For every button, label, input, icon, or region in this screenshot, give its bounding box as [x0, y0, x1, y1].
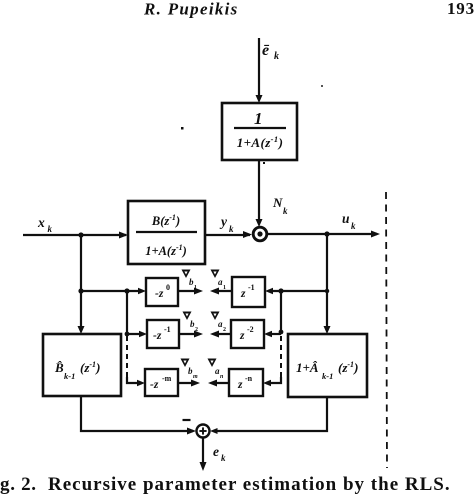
summing junction error: [197, 425, 210, 438]
svg-text:1+A(z-1): 1+A(z-1): [237, 134, 284, 150]
wire left chain dashed: [126, 336, 128, 377]
block z-2 row2: [231, 320, 264, 348]
wire left feedback down to B-hat block: [78, 235, 85, 334]
wire left chain solid: [126, 291, 128, 334]
wire right chain dashed: [280, 336, 282, 377]
svg-text:Recursive parameter estimation: Recursive parameter estimation by the RL…: [48, 474, 451, 495]
svg-text:k: k: [221, 453, 226, 463]
node grad b2 label: [183, 312, 199, 334]
wire noise filter to sum: [256, 160, 263, 227]
svg-text:193: 193: [447, 0, 474, 18]
svg-text:z: z: [239, 330, 245, 342]
wire error output e_k: [200, 438, 207, 471]
wire dashed page margin: [386, 192, 387, 468]
node x_k input label: [37, 215, 53, 234]
junction x_k branch: [78, 232, 83, 237]
block -z-m row3: [145, 369, 178, 396]
svg-text:2: 2: [223, 327, 226, 333]
block z-1 row1: [232, 277, 265, 307]
node grad a2 label: [211, 312, 227, 334]
wire gradient bm out: [178, 380, 200, 387]
node grad b1 label: [182, 270, 198, 292]
wire right row3 feed: [263, 377, 281, 386]
junction right chain row2: [279, 330, 284, 335]
wire B-hat to error sum: [81, 396, 196, 435]
wire left row3 feed: [127, 377, 145, 386]
svg-text:e: e: [213, 444, 219, 459]
svg-text:g. 2.: g. 2.: [0, 474, 37, 495]
svg-text:1+A(z-1): 1+A(z-1): [145, 243, 187, 258]
junction left chain row2: [125, 332, 130, 337]
wire right feedback down to A-hat block: [324, 234, 331, 334]
speck below noise box: [263, 162, 265, 164]
svg-text:B(z-1): B(z-1): [151, 213, 180, 228]
node grad an label: [208, 359, 225, 381]
svg-text:u: u: [342, 211, 350, 226]
svg-text:(z-1): (z-1): [338, 360, 358, 375]
wire gradient a1 out: [210, 288, 232, 295]
page number 193: [447, 0, 474, 18]
junction right row1: [325, 289, 329, 293]
wire right chain solid: [280, 291, 282, 334]
svg-text:z: z: [237, 379, 243, 391]
junction right chain: [278, 288, 283, 293]
summing junction noise add: [253, 227, 267, 241]
svg-text:m: m: [193, 374, 198, 380]
svg-text:R. Pupeikis: R. Pupeikis: [143, 0, 239, 19]
block -z-1 row2: [147, 320, 179, 348]
svg-text:1: 1: [254, 109, 263, 128]
node grad bm label: [181, 359, 199, 381]
junction u_k branch: [324, 231, 329, 236]
wire left row1 feed: [81, 288, 146, 294]
wire gradient b1 out: [178, 288, 203, 295]
svg-text:0: 0: [166, 283, 170, 292]
wire sum to u_k output: [267, 231, 380, 238]
svg-text:B̂: B̂: [54, 360, 64, 375]
block B-hat k-1 estimate: [43, 334, 121, 396]
wire gradient b2 out: [179, 331, 203, 338]
svg-text:-z: -z: [155, 288, 164, 300]
svg-text:1+Â: 1+Â: [296, 360, 319, 375]
wire plant to sum: [205, 231, 252, 238]
node u_k label: [342, 211, 356, 231]
svg-text:k: k: [48, 224, 53, 234]
junction left chain: [124, 288, 129, 293]
svg-text:ē: ē: [262, 42, 270, 59]
svg-text:k: k: [229, 224, 234, 234]
svg-text:-z: -z: [153, 330, 162, 342]
svg-text:2: 2: [195, 327, 198, 333]
speck left of noise box: [181, 127, 184, 130]
header author: [143, 0, 239, 19]
svg-text:n: n: [220, 374, 224, 380]
node y_k label: [219, 214, 234, 234]
junction right feedback row1: [325, 289, 329, 293]
block plant B(z-1)/(1+A(z-1)): [128, 201, 205, 264]
wire gradient an out: [208, 380, 229, 387]
svg-text:-z: -z: [150, 379, 159, 391]
wire A-hat to error sum: [210, 397, 327, 434]
node grad a1 label: [211, 270, 227, 292]
junction left row1: [78, 288, 83, 293]
wire left row2 feed: [127, 331, 147, 337]
block z-n row3: [229, 369, 263, 396]
node N_k label: [272, 195, 288, 216]
block 1+A-hat k-1 estimate: [288, 334, 367, 397]
svg-text:-n: -n: [245, 374, 253, 383]
svg-text:k-1: k-1: [322, 371, 333, 381]
svg-text:-m: -m: [162, 374, 172, 383]
wire x_k input: [23, 232, 128, 239]
svg-text:z: z: [240, 288, 246, 300]
speck upper right: [321, 85, 323, 87]
node e_k label: [213, 444, 226, 463]
caption figure 2: [0, 474, 451, 495]
svg-text:k: k: [274, 51, 279, 62]
wire gradient a2 out: [210, 331, 231, 338]
node e_k noise input label: [262, 42, 279, 62]
svg-text:k: k: [351, 221, 356, 231]
wire right row2 feed: [264, 331, 281, 337]
svg-text:k: k: [283, 206, 288, 216]
svg-text:k-1: k-1: [64, 371, 75, 381]
wire noise input drop: [256, 38, 263, 103]
svg-text:-1: -1: [164, 325, 171, 334]
svg-text:-2: -2: [247, 325, 254, 334]
svg-text:y: y: [219, 214, 228, 229]
svg-text:N: N: [272, 195, 283, 210]
wire right row1 feed: [265, 288, 327, 294]
block noise filter 1/(1+A(z-1)): [222, 103, 297, 160]
node minus sign: [183, 419, 191, 421]
block -z0 row1: [146, 278, 178, 306]
svg-text:1: 1: [194, 285, 197, 291]
svg-text:x: x: [37, 215, 45, 230]
svg-text:-1: -1: [248, 283, 255, 292]
svg-text:(z-1): (z-1): [80, 360, 100, 375]
